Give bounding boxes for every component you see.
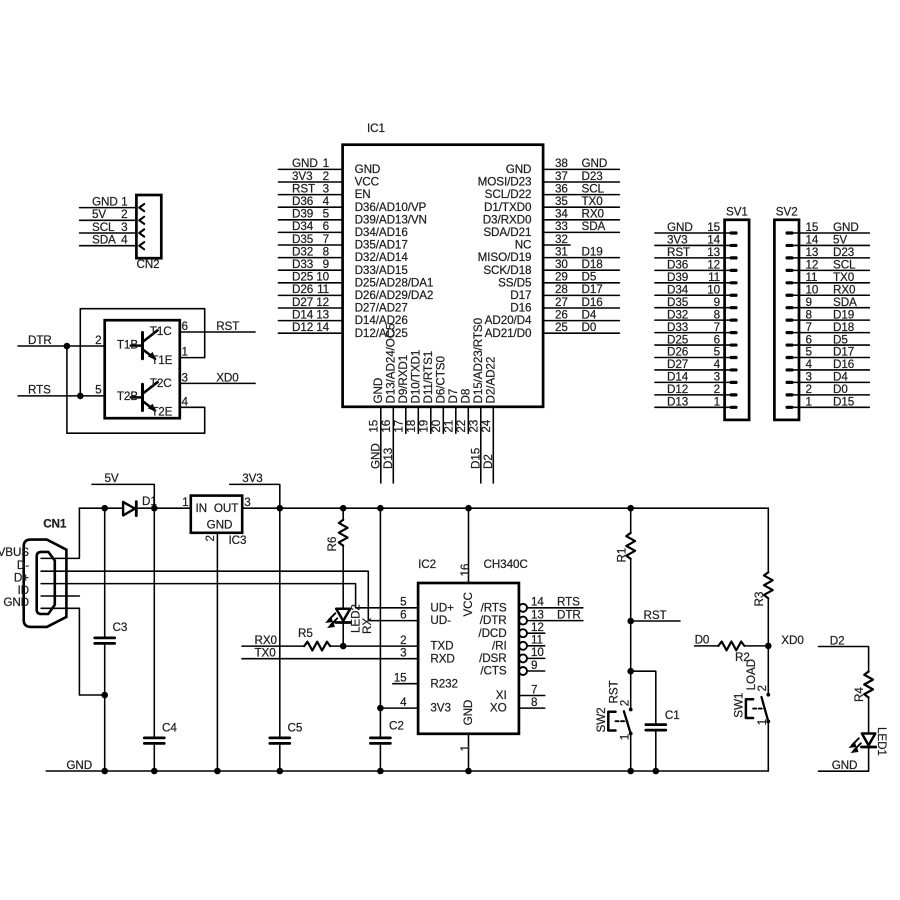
svg-text:C5: C5 — [288, 722, 303, 735]
svg-text:D36: D36 — [667, 259, 688, 272]
svg-text:12: 12 — [707, 259, 720, 272]
SV2 pin 2 pad — [786, 393, 794, 396]
svg-text:EN: EN — [355, 188, 371, 201]
svg-text:3V3: 3V3 — [430, 702, 451, 715]
svg-text:16: 16 — [380, 420, 393, 433]
svg-text:34: 34 — [555, 208, 568, 221]
svg-text:T1E: T1E — [151, 354, 172, 367]
svg-text:GND: GND — [372, 378, 385, 404]
wire D2 stub to R4 — [819, 647, 869, 673]
svg-text:MISO/D19: MISO/D19 — [478, 251, 532, 264]
wire IC1 pin 3 net RST — [278, 194, 342, 196]
svg-text:IC2: IC2 — [418, 558, 436, 571]
svg-text:RTS: RTS — [557, 596, 580, 609]
SV1 pin 2 pad — [730, 393, 738, 396]
svg-text:33: 33 — [555, 220, 568, 233]
wire VBUS to 5V rail — [41, 508, 79, 558]
wire IC1 pin 5 net D39 — [278, 219, 342, 221]
wire 3V3 label stub — [230, 484, 280, 508]
svg-text:D27/AD27: D27/AD27 — [355, 302, 408, 315]
svg-text:D33/AD15: D33/AD15 — [355, 264, 409, 277]
CN2 pin 1 female contact — [139, 204, 144, 211]
wire LED2 to RX0 net — [342, 624, 344, 646]
wire IC2 pin 14 /RTS — [527, 607, 583, 609]
SV1 pin 11 pad — [730, 281, 738, 284]
svg-text:D35: D35 — [292, 233, 314, 246]
svg-text:5: 5 — [806, 346, 813, 359]
wire SV2 pin 8 net D19 — [794, 319, 870, 321]
svg-text:D11/RTS1: D11/RTS1 — [422, 351, 435, 404]
LED LED2 — [326, 609, 351, 628]
svg-text:R3: R3 — [753, 592, 766, 607]
svg-text:13: 13 — [806, 246, 819, 259]
svg-text:5V: 5V — [92, 208, 106, 221]
svg-text:GND: GND — [355, 163, 381, 176]
svg-text:SV2: SV2 — [776, 206, 798, 219]
wire IC1 pin 12 net D27 — [278, 307, 342, 309]
svg-text:4: 4 — [323, 195, 330, 208]
transistor T1 symbol — [131, 330, 158, 358]
transistor T2 symbol — [131, 382, 158, 410]
svg-text:C2: C2 — [389, 720, 404, 733]
svg-text:9: 9 — [714, 296, 720, 309]
wire R5 to IC2 TXD — [330, 645, 418, 647]
connector CN1 USB inner outline — [37, 552, 55, 614]
svg-text:D13: D13 — [667, 396, 688, 409]
SV1 pin 5 pad — [730, 356, 738, 359]
wire SV2 pin 7 net D18 — [794, 332, 870, 334]
wire C5 top — [279, 508, 281, 737]
wire CN2 pin 2 net 5V — [80, 219, 137, 221]
svg-text:RST: RST — [292, 182, 315, 195]
svg-text:5: 5 — [400, 596, 407, 609]
wire IC1 pin 11 net D26 — [278, 294, 342, 296]
svg-text:2: 2 — [121, 208, 127, 221]
svg-text:8: 8 — [531, 696, 537, 709]
svg-text:7: 7 — [806, 321, 812, 334]
svg-text:1: 1 — [323, 157, 329, 170]
switch SW2 — [608, 708, 632, 736]
svg-text:D2: D2 — [482, 454, 495, 469]
svg-text:21: 21 — [443, 420, 456, 433]
svg-text:D3/RXD0: D3/RXD0 — [483, 213, 532, 226]
svg-text:RXD: RXD — [430, 652, 454, 665]
svg-text:3V3: 3V3 — [667, 234, 688, 247]
svg-text:SDA/D21: SDA/D21 — [483, 226, 531, 239]
svg-text:D34: D34 — [292, 220, 314, 233]
svg-text:C4: C4 — [162, 722, 177, 735]
svg-text:D27: D27 — [667, 358, 688, 371]
svg-text:D17: D17 — [833, 346, 854, 359]
svg-text:SCL: SCL — [92, 221, 115, 234]
wire IC1 pin 35 net TX0 — [543, 206, 619, 208]
wire SV2 pin 13 net D23 — [794, 257, 870, 259]
svg-text:XO: XO — [490, 702, 507, 715]
svg-text:3: 3 — [806, 371, 812, 384]
wire SV2 pin 5 net D17 — [794, 357, 870, 359]
svg-text:13: 13 — [707, 246, 720, 259]
wire T2 emitter wrap to DTR — [67, 346, 205, 433]
svg-text:T2C: T2C — [150, 377, 172, 390]
junction DTR node — [64, 343, 71, 350]
svg-text:3: 3 — [714, 371, 720, 384]
junction 3V3 / C5 — [277, 505, 284, 512]
wire IC2 GND pin 1 to ground — [468, 734, 470, 771]
svg-text:GND: GND — [370, 443, 383, 469]
svg-text:22: 22 — [455, 420, 468, 433]
svg-text:TXD: TXD — [430, 640, 453, 653]
diode D1 — [123, 502, 136, 516]
svg-text:7: 7 — [531, 683, 537, 696]
wire SV1 pin 8 net D32 — [655, 319, 730, 321]
wire CN1 GND to ground — [41, 608, 105, 695]
wire IC2 pin 7 XI — [519, 695, 545, 697]
svg-text:26: 26 — [555, 308, 568, 321]
wire IC3 GND pin 2 to ground — [216, 533, 218, 771]
svg-text:1: 1 — [182, 496, 188, 509]
wire IC1 pin 37 net D23 — [543, 181, 619, 183]
wire IC1 pin 32 NC — [543, 244, 570, 246]
svg-text:D13/AD24/OC5: D13/AD24/OC5 — [384, 323, 397, 404]
wire C5 bottom — [279, 744, 281, 771]
svg-text:IC1: IC1 — [367, 122, 385, 135]
svg-text:36: 36 — [555, 182, 568, 195]
wire C3 bottom to ground — [104, 644, 106, 771]
svg-text:15: 15 — [707, 221, 720, 234]
wire IC1 pin 19 — [430, 407, 432, 433]
svg-text:D0: D0 — [582, 321, 597, 334]
svg-text:2: 2 — [204, 535, 217, 541]
svg-text:8: 8 — [323, 245, 329, 258]
wire SV1 pin 9 net D35 — [655, 307, 730, 309]
svg-text:D36/AD10/VP: D36/AD10/VP — [355, 201, 427, 214]
SV1 pin 3 pad — [730, 381, 738, 384]
svg-text:10: 10 — [707, 283, 720, 296]
svg-text:VCC: VCC — [462, 592, 475, 616]
wire IC1 pin 15 net GND — [380, 407, 382, 483]
wire IC1 pin 28 net D17 — [543, 294, 619, 296]
CN2 pin 3 female contact — [139, 229, 144, 236]
capacitor C5 — [270, 738, 290, 744]
wire IC1 pin 22 — [467, 407, 469, 433]
wire IC1 pin 25 net D0 — [543, 332, 619, 334]
junction XD0 node — [765, 643, 772, 650]
wire R6 top — [342, 508, 344, 520]
wire IC1 pin 30 net D18 — [543, 269, 619, 271]
svg-text:/CTS: /CTS — [480, 665, 507, 678]
svg-text:9: 9 — [806, 296, 812, 309]
svg-text:R4: R4 — [853, 687, 866, 702]
wire R1 top — [630, 508, 632, 533]
svg-text:9: 9 — [323, 258, 329, 271]
svg-text:D12: D12 — [667, 383, 688, 396]
junction R1 tap — [627, 505, 634, 512]
svg-text:XD0: XD0 — [216, 371, 239, 384]
wire IC1 pin 14 net D12 — [278, 332, 342, 334]
svg-text:D5: D5 — [833, 333, 848, 346]
svg-text:D17: D17 — [510, 289, 531, 302]
SV1 pin 13 pad — [730, 256, 738, 259]
svg-text:4: 4 — [806, 358, 813, 371]
svg-text:9: 9 — [531, 659, 537, 672]
wire pin 3 to XD0 — [180, 382, 255, 384]
svg-text:D18: D18 — [833, 321, 854, 334]
svg-text:XI: XI — [496, 689, 507, 702]
svg-text:D23: D23 — [833, 246, 854, 259]
svg-text:D27: D27 — [292, 296, 313, 309]
svg-text:11: 11 — [806, 271, 818, 284]
svg-text:RST: RST — [216, 320, 239, 333]
svg-text:D6/CTS0: D6/CTS0 — [434, 356, 447, 404]
svg-text:OUT: OUT — [214, 502, 238, 515]
svg-text:5V: 5V — [105, 472, 119, 485]
svg-text:D26/AD29/DA2: D26/AD29/DA2 — [355, 289, 434, 302]
svg-text:D26: D26 — [667, 346, 688, 359]
wire IC2 pin 10 /DSR — [527, 657, 545, 659]
svg-text:24: 24 — [480, 419, 493, 432]
svg-text:3V3: 3V3 — [242, 472, 263, 485]
svg-text:SCK/D18: SCK/D18 — [483, 264, 531, 277]
svg-text:8: 8 — [714, 308, 720, 321]
SV1 pin 8 pad — [730, 319, 738, 322]
wire 3V3 rail from IC3 OUT to R3 — [242, 507, 768, 509]
svg-text:D17: D17 — [582, 283, 603, 296]
svg-text:RX0: RX0 — [255, 634, 278, 647]
svg-text:D14: D14 — [292, 308, 314, 321]
wire R4 to LED1 — [868, 697, 870, 734]
svg-text:D39: D39 — [292, 208, 313, 221]
capacitor C4 — [144, 738, 164, 744]
wire SV2 pin 15 net GND — [794, 232, 870, 234]
svg-text:4: 4 — [714, 358, 721, 371]
svg-text:D35: D35 — [667, 296, 689, 309]
svg-text:11: 11 — [708, 271, 720, 284]
svg-text:2: 2 — [95, 334, 101, 347]
svg-text:29: 29 — [555, 271, 568, 284]
svg-text:D23: D23 — [582, 170, 603, 183]
svg-text:RX0: RX0 — [833, 283, 856, 296]
svg-text:D25/AD28/DA1: D25/AD28/DA1 — [355, 276, 434, 289]
wire ID stub — [41, 595, 79, 597]
svg-text:16: 16 — [459, 564, 472, 577]
junction IC2 pin4 3V3 — [377, 705, 384, 712]
wire SV1 pin 7 net D33 — [655, 332, 730, 334]
wire D- to IC2 UD- — [41, 571, 418, 620]
svg-text:D7: D7 — [447, 389, 460, 404]
svg-text:UD+: UD+ — [430, 601, 454, 614]
svg-text:20: 20 — [430, 419, 443, 432]
wire CN2 pin 3 net SCL — [80, 232, 137, 234]
svg-text:DTR: DTR — [28, 334, 52, 347]
svg-text:1: 1 — [182, 346, 188, 359]
wire SV1 pin 13 net RST — [655, 257, 730, 259]
LED LED1 — [850, 734, 876, 753]
capacitor C1 — [646, 725, 666, 731]
wire SV1 pin 1 net D13 — [655, 406, 730, 408]
svg-text:RX: RX — [361, 618, 374, 634]
wire IC1 pin 7 net D35 — [278, 244, 342, 246]
wire CN2 pin 1 net GND — [80, 207, 137, 209]
svg-text:14: 14 — [316, 321, 329, 334]
wire C3 top — [104, 508, 106, 637]
wire RX0 to R5 — [242, 645, 304, 647]
svg-text:SS/D5: SS/D5 — [498, 276, 532, 289]
wire SV1 pin 2 net D12 — [655, 394, 730, 396]
svg-text:12: 12 — [316, 296, 329, 309]
svg-text:2: 2 — [806, 383, 812, 396]
svg-text:GND: GND — [3, 596, 29, 609]
svg-text:2: 2 — [756, 685, 769, 691]
transistor pair T1/T2 body — [105, 320, 180, 418]
svg-text:3: 3 — [400, 647, 406, 660]
wire IC1 pin 23 net D15 — [480, 407, 482, 483]
svg-text:GND: GND — [292, 157, 318, 170]
wire R2 to XD0 node — [744, 645, 768, 647]
svg-text:D13: D13 — [382, 448, 395, 469]
svg-text:1: 1 — [459, 745, 472, 751]
resistor R4 — [864, 672, 873, 698]
svg-text:2: 2 — [323, 170, 329, 183]
wire SV2 pin 10 net RX0 — [794, 294, 870, 296]
svg-text:10: 10 — [806, 283, 819, 296]
wire SV1 pin 6 net D25 — [655, 344, 730, 346]
svg-text:5V: 5V — [833, 234, 847, 247]
svg-text:13: 13 — [316, 308, 329, 321]
svg-text:5: 5 — [714, 346, 721, 359]
wire C1 bottom — [655, 731, 657, 771]
svg-text:VBUS: VBUS — [0, 546, 29, 559]
svg-text:5: 5 — [95, 384, 102, 397]
svg-text:DTR: DTR — [557, 608, 581, 621]
wire IC1 pin 9 net D33 — [278, 269, 342, 271]
svg-text:CN2: CN2 — [137, 258, 160, 271]
junction C2 riser tap — [377, 505, 384, 512]
svg-text:D26: D26 — [292, 283, 313, 296]
wire SV2 pin 1 net D15 — [794, 406, 870, 408]
svg-text:D32: D32 — [667, 308, 688, 321]
wire XD0 to SW1 pin 2 — [767, 646, 769, 694]
wire R1 to RST node — [630, 559, 632, 621]
svg-text:D8: D8 — [459, 389, 472, 404]
wire IC1 pin 10 net D25 — [278, 282, 342, 284]
junction LED2 / R5 / IC2 TXD — [340, 643, 347, 650]
wire IC1 pin 1 net GND — [278, 168, 342, 170]
svg-text:D19: D19 — [582, 245, 603, 258]
svg-text:1: 1 — [714, 396, 720, 409]
svg-text:D39: D39 — [667, 271, 688, 284]
SV1 pin 6 pad — [730, 343, 738, 346]
wire IC1 pin 18 — [417, 407, 419, 433]
resistor R5 — [304, 642, 330, 651]
IC2 pin 13 inversion bubble — [519, 617, 527, 625]
svg-text:SCL: SCL — [833, 259, 856, 272]
svg-text:6: 6 — [400, 608, 406, 621]
svg-text:SV1: SV1 — [726, 206, 748, 219]
svg-text:15: 15 — [368, 419, 381, 432]
header SV2 body — [774, 220, 799, 420]
svg-text:3: 3 — [121, 221, 127, 234]
svg-text:D+: D+ — [14, 571, 29, 584]
SV2 pin 1 pad — [786, 406, 794, 409]
svg-text:/DTR: /DTR — [480, 614, 507, 627]
SV2 pin 10 pad — [786, 294, 794, 297]
svg-text:15: 15 — [394, 672, 407, 685]
junction IC2 VCC tap — [465, 505, 472, 512]
svg-text:GND: GND — [92, 195, 118, 208]
svg-text:1: 1 — [806, 396, 812, 409]
SV1 pin 10 pad — [730, 294, 738, 297]
svg-text:7: 7 — [714, 321, 720, 334]
junction C5 on rail — [277, 768, 284, 775]
svg-text:D0: D0 — [833, 383, 848, 396]
svg-text:27: 27 — [555, 296, 568, 309]
svg-text:D1/TXD0: D1/TXD0 — [484, 201, 532, 214]
wire D1 cathode to IC3 IN — [136, 507, 191, 509]
svg-text:RTS: RTS — [28, 384, 51, 397]
SV2 pin 11 pad — [786, 281, 794, 284]
resistor R3 — [764, 572, 773, 598]
wire SV2 pin 3 net D4 — [794, 381, 870, 383]
wire IC1 pin 34 net RX0 — [543, 219, 619, 221]
svg-text:/RI: /RI — [492, 639, 507, 652]
regulator IC3 body — [191, 496, 242, 533]
wire SV1 pin 14 net 3V3 — [655, 244, 730, 246]
wire IC1 pin 17 — [405, 407, 407, 433]
wire SV1 pin 5 net D26 — [655, 357, 730, 359]
svg-text:18: 18 — [405, 420, 418, 433]
svg-text:3: 3 — [182, 371, 188, 384]
svg-text:2: 2 — [400, 634, 406, 647]
svg-text:GND: GND — [506, 163, 532, 176]
capacitor C3 — [95, 638, 115, 644]
wire CN2 pin 4 net SDA — [80, 245, 137, 247]
svg-text:4: 4 — [400, 696, 407, 709]
capacitor C2 — [370, 738, 390, 744]
wire SW1 pin 1 to ground rail end — [767, 722, 769, 772]
svg-text:GND: GND — [582, 157, 608, 170]
svg-text:D39/AD13/VN: D39/AD13/VN — [355, 213, 427, 226]
svg-text:T1C: T1C — [150, 325, 172, 338]
svg-text:D18: D18 — [582, 258, 603, 271]
SV1 pin 14 pad — [730, 244, 738, 247]
svg-text:SDA: SDA — [833, 296, 857, 309]
junction SW2 on rail — [627, 768, 634, 775]
svg-text:/RTS: /RTS — [481, 601, 507, 614]
wire IC1 pin 26 net D4 — [543, 320, 619, 322]
svg-text:C3: C3 — [113, 621, 128, 634]
wire LED1 to GND stub — [819, 748, 869, 771]
svg-text:D25: D25 — [667, 333, 689, 346]
svg-text:35: 35 — [555, 195, 568, 208]
svg-text:D15: D15 — [833, 396, 855, 409]
wire pin 6 to RST — [180, 331, 255, 333]
wire IC1 pin 6 net D34 — [278, 231, 342, 233]
connector CN2 body — [136, 195, 161, 258]
SV1 pin 4 pad — [730, 368, 738, 371]
svg-text:4: 4 — [121, 234, 128, 247]
svg-text:SCL: SCL — [582, 182, 605, 195]
IC2 pin 12 inversion bubble — [519, 629, 527, 637]
svg-text:3: 3 — [244, 496, 250, 509]
wire IC2 VCC pin 16 to 3V3 rail — [468, 508, 470, 583]
SV1 pin 9 pad — [730, 306, 738, 309]
wire IC1 pin 8 net D32 — [278, 257, 342, 259]
junction C1 tap — [627, 668, 634, 675]
svg-text:5: 5 — [323, 208, 330, 221]
svg-text:14: 14 — [806, 234, 819, 247]
svg-text:6: 6 — [806, 333, 812, 346]
svg-text:/DSR: /DSR — [479, 652, 507, 665]
